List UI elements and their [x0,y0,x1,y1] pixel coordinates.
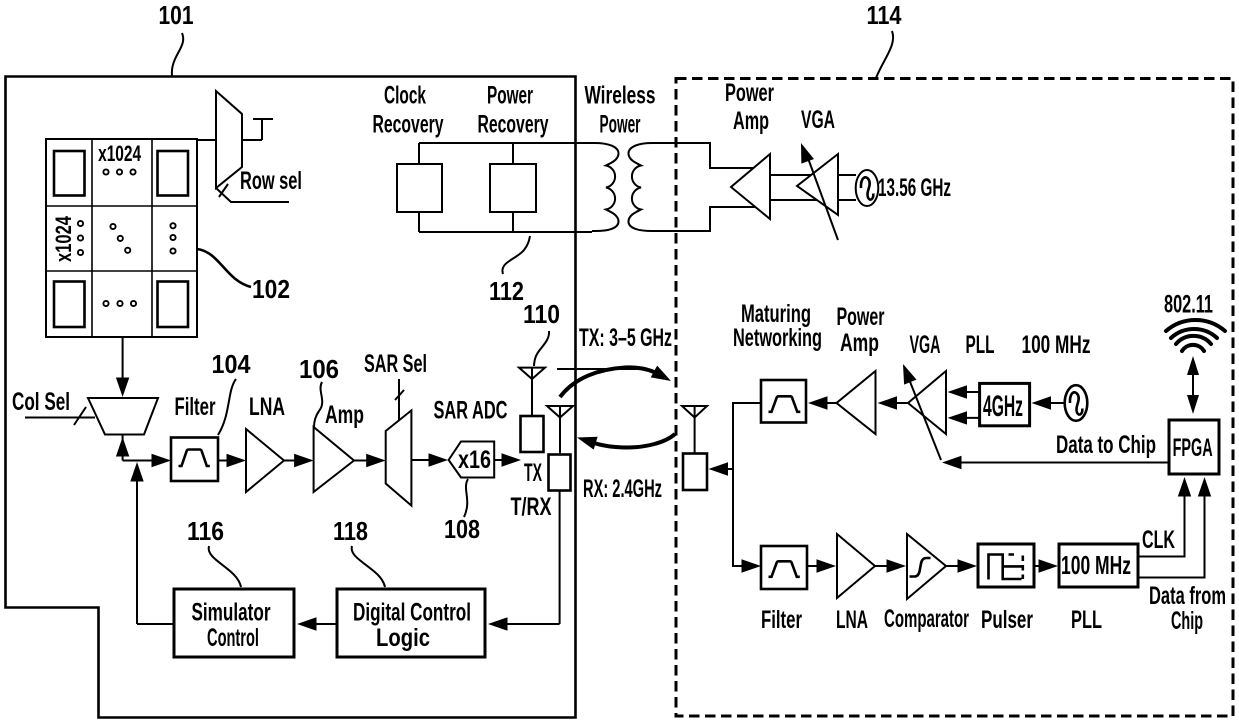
svg-text:PLL: PLL [1071,606,1102,634]
svg-text:118: 118 [333,516,368,546]
svg-text:110: 110 [523,299,560,329]
svg-text:x1024: x1024 [98,141,142,166]
svg-text:Networking: Networking [733,324,822,352]
svg-text:Power: Power [725,79,774,107]
svg-text:VGA: VGA [910,331,941,359]
svg-text:SAR Sel: SAR Sel [364,350,427,378]
svg-text:Pulser: Pulser [981,606,1033,634]
svg-text:112: 112 [489,276,524,306]
svg-text:Row sel: Row sel [240,167,302,195]
svg-text:CLK: CLK [1142,526,1175,554]
svg-text:x16: x16 [458,446,491,474]
svg-text:4GHz: 4GHz [983,390,1023,423]
svg-text:Simulator: Simulator [192,599,271,627]
svg-text:Filter: Filter [761,606,802,634]
svg-text:Power: Power [600,111,641,139]
svg-text:VGA: VGA [801,106,835,134]
svg-text:Clock: Clock [384,82,426,110]
svg-text:Wireless: Wireless [585,82,656,110]
svg-text:PLL: PLL [966,331,995,359]
svg-text:Power: Power [487,82,533,110]
svg-text:TX: TX [524,459,542,487]
svg-text:100 MHz: 100 MHz [1061,550,1131,580]
svg-text:Data from: Data from [1149,582,1226,610]
svg-text:Logic: Logic [376,624,430,652]
svg-text:Amp: Amp [733,107,769,135]
svg-text:Col Sel: Col Sel [12,388,70,416]
svg-text:Data to Chip: Data to Chip [1056,431,1156,459]
svg-text:102: 102 [252,274,290,304]
svg-text:106: 106 [299,354,339,384]
svg-text:Amp: Amp [840,329,879,357]
svg-text:Filter: Filter [175,393,216,421]
svg-text:100 MHz: 100 MHz [1022,331,1091,359]
svg-text:SAR ADC: SAR ADC [434,397,508,425]
svg-text:Control: Control [207,624,259,652]
svg-text:104: 104 [212,349,251,379]
svg-text:101: 101 [159,0,194,30]
svg-text:802.11: 802.11 [1164,291,1213,319]
svg-text:FPGA: FPGA [1173,434,1213,462]
svg-text:Chip: Chip [1171,607,1203,635]
svg-text:108: 108 [444,514,480,544]
svg-text:LNA: LNA [249,393,285,421]
svg-text:Digital Control: Digital Control [353,599,471,627]
svg-text:LNA: LNA [836,606,868,634]
svg-text:T/RX: T/RX [511,493,552,521]
svg-text:Comparator: Comparator [884,605,969,633]
svg-text:x1024: x1024 [51,215,76,262]
svg-text:Amp: Amp [325,401,364,429]
svg-text:TX: 3–5 GHz: TX: 3–5 GHz [579,324,672,352]
svg-text:116: 116 [187,516,224,546]
svg-text:Recovery: Recovery [373,111,444,139]
svg-text:Power: Power [837,303,885,331]
svg-text:114: 114 [867,0,902,30]
svg-text:13.56 GHz: 13.56 GHz [878,174,951,202]
svg-text:RX: 2.4GHz: RX: 2.4GHz [583,475,662,503]
svg-text:Recovery: Recovery [478,111,549,139]
